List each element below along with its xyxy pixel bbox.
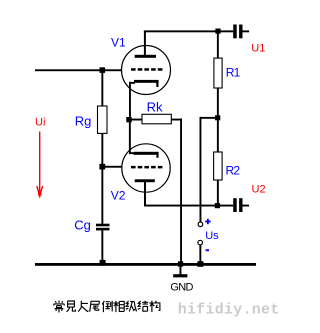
label R2 xyxy=(226,163,241,177)
terminal Us- xyxy=(198,240,203,245)
wire V1 plate lead xyxy=(144,31,146,56)
node junction Rk/ground bus xyxy=(178,261,183,266)
svg-text:Ui: Ui xyxy=(35,117,45,129)
char xiang xyxy=(113,301,124,312)
watermark hifidiy.net xyxy=(178,302,280,319)
svg-text:V1: V1 xyxy=(111,36,126,50)
wire Rg top lead xyxy=(101,70,103,107)
svg-text:U1: U1 xyxy=(251,43,265,55)
node junction top wire/Rg xyxy=(100,67,106,73)
V1 plate bar xyxy=(135,55,156,58)
wire supply tap horizontal xyxy=(200,117,217,119)
svg-text:R1: R1 xyxy=(226,66,241,80)
ground bus wire xyxy=(35,263,256,266)
terminal Us+ xyxy=(198,222,203,227)
wire Cg top lead xyxy=(101,167,103,224)
input arrow Ui xyxy=(37,132,43,198)
svg-text:Us: Us xyxy=(205,230,219,242)
wire R2 bottom lead xyxy=(217,180,219,206)
char chang2 xyxy=(78,301,88,312)
label U2 xyxy=(252,184,266,196)
wire V2 cathode lead xyxy=(129,121,135,154)
node junction R1/R2/supply xyxy=(215,115,220,120)
wire V2 plate lead xyxy=(144,181,146,207)
char jian xyxy=(67,301,76,312)
label + xyxy=(205,219,210,224)
label R1 xyxy=(226,66,241,80)
svg-text:V2: V2 xyxy=(111,188,126,202)
resistor R2 xyxy=(214,152,223,180)
triode V1 envelope xyxy=(122,46,171,95)
wire Rk to ground bus xyxy=(180,119,182,265)
V1 cathode bar xyxy=(134,80,159,87)
capacitor Cg xyxy=(96,224,110,231)
wire U2 output stub xyxy=(243,205,250,207)
wire supply tap vertical to Us+ xyxy=(200,117,202,222)
svg-text:hifidiy.net: hifidiy.net xyxy=(178,302,280,319)
resistor Rk xyxy=(142,114,171,124)
wire Rg bottom lead xyxy=(101,133,103,167)
wire V1 plate to U1 xyxy=(144,30,233,32)
wire Rk right lead xyxy=(171,119,182,121)
char chang xyxy=(54,301,64,313)
wire U1 output stub xyxy=(243,30,250,32)
V2 grid (dashed) xyxy=(131,166,162,169)
wire Us- to ground bus xyxy=(199,245,201,264)
label Rg xyxy=(75,113,92,128)
node junction Cg/ground bus xyxy=(100,260,106,266)
node junction Us-/ground bus xyxy=(197,261,203,267)
char wei xyxy=(90,301,100,311)
wire V2 plate to U2 xyxy=(144,205,233,207)
wire Cg bottom lead xyxy=(101,230,103,263)
wire R1 top lead xyxy=(217,31,219,59)
wire input top stub xyxy=(35,69,122,71)
V2 plate bar xyxy=(135,179,155,182)
wire V1 cathode lead xyxy=(129,82,135,121)
triode V2 envelope xyxy=(122,144,170,192)
resistor R1 xyxy=(214,58,222,88)
svg-text:Rg: Rg xyxy=(75,113,92,128)
title text (Chinese) xyxy=(54,301,160,313)
char ji xyxy=(126,301,137,312)
label U1 xyxy=(251,43,265,55)
label Us xyxy=(205,230,219,242)
wire Rk left lead xyxy=(131,119,142,121)
V2 cathode bar xyxy=(134,152,159,158)
label GND xyxy=(170,281,193,293)
label Ui xyxy=(35,117,45,129)
node junction R2/V2 plate/U2 xyxy=(215,203,220,208)
node junction Rg/V2 grid/Cg xyxy=(99,164,105,170)
capacitor C-U1 xyxy=(233,25,242,39)
char gou xyxy=(149,301,160,312)
label Cg xyxy=(74,217,91,232)
wire R2 top lead xyxy=(217,119,219,153)
svg-text:GND: GND xyxy=(170,281,193,293)
V1 grid (dashed) xyxy=(131,68,162,71)
node junction cathodes/Rk xyxy=(126,117,131,122)
char dao xyxy=(102,301,112,312)
label - xyxy=(206,249,209,251)
resistor Rg xyxy=(98,106,108,133)
svg-text:Rk: Rk xyxy=(147,100,163,115)
svg-text:R2: R2 xyxy=(226,163,241,177)
char jie xyxy=(138,301,148,312)
wire R1 bottom lead xyxy=(217,88,219,119)
label V1 xyxy=(111,36,126,50)
label V2 xyxy=(111,188,126,202)
label Rk xyxy=(147,100,163,115)
wire to V2 grid xyxy=(104,166,122,168)
svg-text:Cg: Cg xyxy=(74,217,91,232)
node junction plate V1 / R1 xyxy=(215,29,220,34)
input bottom stub xyxy=(0,0,1,1)
ground symbol xyxy=(173,265,187,277)
svg-text:U2: U2 xyxy=(252,184,266,196)
capacitor C-U2 xyxy=(233,198,242,212)
